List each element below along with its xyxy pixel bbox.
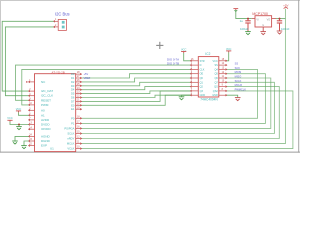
svg-text:MCP1700: MCP1700 xyxy=(252,12,268,16)
IC2 left pin 6 xyxy=(190,86,198,88)
ground under C2 xyxy=(277,31,283,34)
IC1 right pin E1 xyxy=(76,108,82,110)
supply VCC (regulator input) xyxy=(233,9,238,10)
IC1 right pin P1 xyxy=(76,123,82,125)
wire output Q0 wrap-around xyxy=(82,69,258,118)
wire output Q5 wrap-around xyxy=(82,91,293,149)
svg-text:Q4: Q4 xyxy=(214,68,218,71)
IC1 right pin PS/PGA xyxy=(76,128,82,130)
IC2 right pin row 1 xyxy=(219,60,227,62)
wire SDA: connector pin1 to IC1 I2C_DAT xyxy=(2,21,53,91)
svg-text:OE: OE xyxy=(200,73,204,76)
junction output cap xyxy=(279,18,281,20)
IC1 left pin NC xyxy=(29,81,35,83)
wire +5V rail down right side xyxy=(82,9,286,144)
svg-text:VCC: VCC xyxy=(213,60,218,63)
IC1 right pin D5 xyxy=(76,93,82,95)
svg-text:VCC: VCC xyxy=(226,47,232,51)
svg-text:VCC: VCC xyxy=(181,47,187,51)
svg-text:P0: P0 xyxy=(71,116,75,120)
svg-text:100uF: 100uF xyxy=(240,27,249,31)
svg-text:IC2: IC2 xyxy=(205,52,210,56)
IC1 right pin D0 xyxy=(76,73,82,75)
wire output Q3 wrap-around xyxy=(82,82,275,133)
IC1 left pin AGND xyxy=(29,136,35,138)
IC1 right pin D6 xyxy=(76,97,82,99)
svg-text:VREF: VREF xyxy=(84,77,91,80)
wire bus bit 1 IC1 to IC2 xyxy=(82,78,191,82)
svg-text:E0: E0 xyxy=(71,103,75,107)
svg-text:I2C Bus: I2C Bus xyxy=(55,12,70,17)
ground under regulator xyxy=(260,32,266,35)
svg-text:nRDY: nRDY xyxy=(67,137,74,141)
wire VO to +5V rail xyxy=(276,18,285,20)
IC1 left pin RESET xyxy=(29,99,35,101)
IC1 left pin PWM xyxy=(29,104,35,106)
IC1 left pin I2C_DAT xyxy=(29,90,35,92)
svg-text:D5: D5 xyxy=(71,92,75,96)
ground at IC1 left xyxy=(16,127,22,130)
IC1 left pin DVDD xyxy=(29,124,35,126)
IC1 left pin IOVDD xyxy=(29,128,35,130)
svg-text:AGND: AGND xyxy=(41,134,51,138)
svg-text:IOVDD: IOVDD xyxy=(41,127,51,131)
svg-text:P1: P1 xyxy=(71,121,75,125)
ground under C1 xyxy=(245,32,251,35)
wire DGND to ground xyxy=(24,141,29,145)
svg-text:AT-YD-2B: AT-YD-2B xyxy=(52,70,65,74)
IC2 right pin row 2 xyxy=(219,64,227,66)
IC2 right pin row 8 xyxy=(219,90,227,92)
wire bus bit 6 IC1 to IC2 xyxy=(82,91,191,102)
svg-text:GND: GND xyxy=(212,94,218,97)
capacitor C2 xyxy=(277,19,282,23)
wire output Q4 wrap-around xyxy=(82,87,280,139)
wire IC2 GND pin to ground xyxy=(182,95,191,96)
NC marker xyxy=(26,81,28,83)
IC1 left pin DGND xyxy=(29,140,35,142)
wire output Q1 wrap-around xyxy=(82,74,266,124)
svg-text:DGND: DGND xyxy=(41,139,51,143)
svg-text:SS: SS xyxy=(214,64,218,67)
IC2 right pin row 9 xyxy=(219,94,227,96)
svg-text:AVDD: AVDD xyxy=(41,118,50,122)
svg-text:I2C_CLK: I2C_CLK xyxy=(41,94,53,98)
IC2 right pin row 6 xyxy=(219,81,227,83)
IC2 left pin 8 xyxy=(190,94,198,96)
svg-text:PWM: PWM xyxy=(41,103,49,107)
wire bus bit 4 IC1 to IC2 xyxy=(82,91,191,94)
capacitor C1 xyxy=(245,19,250,23)
svg-text:U1: U1 xyxy=(50,147,54,151)
wire SCL: connector pin2 to IC1 I2C_CLK xyxy=(5,27,53,96)
IC2 left pin 4 xyxy=(190,77,198,79)
svg-text:D: D xyxy=(200,64,202,67)
IC1 right pin D1 xyxy=(76,77,82,79)
svg-text:Q0: Q0 xyxy=(200,77,204,80)
IC2 left pin 2 xyxy=(190,69,198,71)
wire IC2 right GND to ground xyxy=(227,95,238,97)
svg-text:VI: VI xyxy=(256,19,259,22)
svg-text:D6: D6 xyxy=(71,96,75,100)
svg-text:74HC4094N: 74HC4094N xyxy=(200,97,218,101)
wire VCC to regulator VI xyxy=(236,12,252,19)
svg-text:A0: A0 xyxy=(41,108,45,112)
ic IC1 box xyxy=(35,74,76,152)
wire junction to ground xyxy=(18,125,20,127)
wire AGND to ground xyxy=(15,136,29,140)
IC1 right pin P0 xyxy=(76,117,82,119)
svg-text:G: G xyxy=(262,25,264,27)
op IC2 box xyxy=(198,57,219,97)
svg-text:PS/PGA: PS/PGA xyxy=(64,126,74,130)
ground AGND xyxy=(12,141,18,144)
svg-text:A1: A1 xyxy=(41,113,45,117)
svg-text:GND: GND xyxy=(200,94,206,97)
svg-text:D3: D3 xyxy=(71,84,75,88)
connector X1 xyxy=(58,19,66,30)
wire bus bit 2 IC1 to IC2 xyxy=(82,82,191,86)
svg-text:Q6: Q6 xyxy=(214,77,218,80)
wire output Q2 wrap-around xyxy=(82,78,271,128)
connector X1 pin 1 xyxy=(54,20,59,22)
svg-text:VCC: VCC xyxy=(16,107,22,111)
IC2 left pin 5 xyxy=(190,81,198,83)
IC1 right pin SCLK xyxy=(76,133,82,135)
IC1 right pin nRDY xyxy=(76,138,82,140)
svg-text:E1: E1 xyxy=(71,107,75,111)
svg-text:RESET: RESET xyxy=(41,98,51,102)
IC1 right pin VCLK xyxy=(76,148,82,150)
ground DGND xyxy=(21,146,27,149)
svg-text:D1: D1 xyxy=(71,76,75,80)
junction on IOVDD wire xyxy=(18,124,20,126)
IC1 right pin D3 xyxy=(76,85,82,87)
wire bus bit 5 IC1 to IC2 xyxy=(82,95,191,97)
wire bus bit 7 IC1 to IC2 xyxy=(82,95,191,105)
svg-text:I2C_DAT: I2C_DAT xyxy=(41,89,53,93)
wire VCC to IC2 right row1 xyxy=(227,52,229,60)
svg-text:D7: D7 xyxy=(71,99,75,103)
IC2 right pin row 4 xyxy=(219,73,227,75)
IC1 left pin AVDD xyxy=(29,119,35,121)
ground below IC2 right xyxy=(235,98,241,101)
connector X1 pin 2 xyxy=(54,26,59,28)
svg-text:EXP: EXP xyxy=(41,144,47,148)
svg-text:1u: 1u xyxy=(240,19,244,23)
svg-text:SS: SS xyxy=(235,62,239,66)
junction input cap xyxy=(247,18,249,20)
IC2 left pin 7 xyxy=(190,90,198,92)
svg-text:Q5: Q5 xyxy=(214,73,218,76)
svg-text:MCLK: MCLK xyxy=(67,142,75,146)
IC1 right pin D7 xyxy=(76,101,82,103)
svg-text:Q3: Q3 xyxy=(200,90,204,93)
svg-text:VO: VO xyxy=(267,19,271,22)
svg-text:DVDD: DVDD xyxy=(41,123,50,127)
IC1 right pin D4 xyxy=(76,89,82,91)
wire bus bit 3 IC1 to IC2 xyxy=(82,87,191,90)
svg-text:D2: D2 xyxy=(71,80,75,84)
wire bus bit 0 IC1 to IC2 xyxy=(82,74,191,78)
IC1 left pin A0 xyxy=(29,109,35,111)
wire VCC to AVDD xyxy=(19,112,29,115)
IC2 right pin row 5 xyxy=(219,77,227,79)
ground below IC2 left xyxy=(179,97,185,100)
svg-text:Q7: Q7 xyxy=(214,81,218,84)
svg-text:+5V: +5V xyxy=(84,73,89,76)
svg-text:Q2: Q2 xyxy=(200,86,204,89)
IC1 left pin A1 xyxy=(29,114,35,116)
frame border xyxy=(0,0,300,153)
IC2 right pin row 3 xyxy=(219,69,227,71)
IC2 left pin 3 xyxy=(190,73,198,75)
wire VCC to IC2 pin 16 xyxy=(184,53,191,61)
wire VCC to IOVDD xyxy=(10,122,29,125)
regulator pin VI xyxy=(252,18,255,20)
svg-text:VCLK: VCLK xyxy=(67,147,74,151)
svg-text:STR: STR xyxy=(200,60,205,63)
svg-text:VCC: VCC xyxy=(7,116,13,120)
svg-text:QS2: QS2 xyxy=(213,90,219,93)
svg-text:D4: D4 xyxy=(71,88,75,92)
IC2 left pin 1 xyxy=(190,64,198,66)
IC2 right pin row 7 xyxy=(219,86,227,88)
regulator pin VO xyxy=(272,18,276,20)
IC1 left pin EXP xyxy=(29,145,35,147)
svg-text:QS: QS xyxy=(214,86,218,89)
wire IC2 row2 to IC1 left pin xyxy=(16,65,191,100)
svg-text:CLK: CLK xyxy=(200,68,205,71)
svg-text:D0: D0 xyxy=(71,72,75,76)
IC1 right pin E0 xyxy=(76,104,82,106)
svg-text:SCLK: SCLK xyxy=(67,132,74,136)
IC1 left pin I2C_CLK xyxy=(29,95,35,97)
wire IC2 row3 to IC1 left pin xyxy=(22,69,191,105)
regulator pin GND xyxy=(262,27,264,32)
IC1 right pin MCLK xyxy=(76,143,82,145)
IC2 left pin 16 xyxy=(190,60,198,62)
svg-text:Q1: Q1 xyxy=(200,81,204,84)
IC1 right pin D2 xyxy=(76,81,82,83)
origin cross marker xyxy=(156,42,163,49)
